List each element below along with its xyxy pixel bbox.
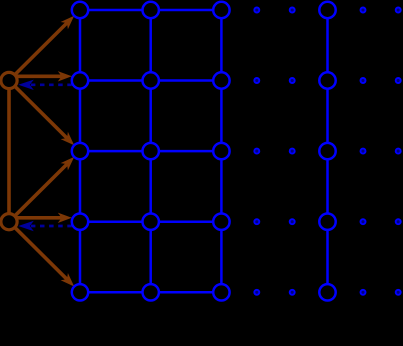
wire: row 5 horizontal edge bbox=[80, 291, 221, 294]
vertex circle (3,5) bbox=[213, 284, 229, 300]
vertex circle (1,2) bbox=[72, 72, 88, 88]
ellipsis dot col 2 row 5 bbox=[290, 290, 295, 295]
vertex circle (2,1) bbox=[143, 2, 159, 18]
vertex circle (3,3) bbox=[213, 143, 229, 159]
vertex circle (4,5) bbox=[319, 284, 335, 300]
wire: row 2 horizontal edge bbox=[80, 79, 221, 82]
vertex circle (3,1) bbox=[213, 2, 229, 18]
vertex circle (2,4) bbox=[143, 214, 159, 230]
wire: col 4 vertical edge bbox=[326, 10, 329, 292]
vertex circle (4,3) bbox=[319, 143, 335, 159]
wire: col 1 vertical edge bbox=[79, 10, 82, 292]
ellipsis dot col 2 row 3 bbox=[290, 149, 295, 154]
vertex circle (4,2) bbox=[319, 72, 335, 88]
dashed arrow vertex (1,4) to node B bbox=[18, 221, 72, 231]
ellipsis dot col 3 row 2 bbox=[361, 78, 366, 83]
wire: col 2 vertical edge bbox=[149, 10, 152, 292]
arrow node A to vertex (1,1) bbox=[9, 16, 74, 81]
ellipsis dot col 1 row 2 bbox=[254, 78, 259, 83]
vertex circle (2,3) bbox=[143, 143, 159, 159]
wire: brown edge node A to node B bbox=[7, 81, 11, 222]
ellipsis dot col 3 row 1 bbox=[361, 8, 366, 13]
dashed arrow vertex (1,2) to node A bbox=[18, 80, 72, 90]
vertex circle (4,1) bbox=[319, 2, 335, 18]
ellipsis dot col 1 row 5 bbox=[254, 290, 259, 295]
ellipsis dot col 4 row 4 bbox=[396, 219, 401, 224]
ellipsis dot col 4 row 1 bbox=[396, 8, 401, 13]
ellipsis dot col 2 row 2 bbox=[290, 78, 295, 83]
vertex circle (1,3) bbox=[72, 143, 88, 159]
ellipsis dot col 1 row 4 bbox=[254, 219, 259, 224]
wire: row 1 horizontal edge bbox=[80, 9, 221, 12]
wire: row 3 horizontal edge bbox=[80, 150, 221, 153]
node B (black vertex) bbox=[1, 214, 17, 230]
ellipsis dot col 3 row 4 bbox=[361, 219, 366, 224]
wire: col 3 vertical edge bbox=[220, 10, 223, 292]
vertex circle (1,4) bbox=[72, 214, 88, 230]
arrow node B to vertex (1,3) bbox=[9, 157, 74, 222]
vertex circle (3,4) bbox=[213, 214, 229, 230]
ellipsis dot col 3 row 5 bbox=[361, 290, 366, 295]
vertex circle (1,5) bbox=[72, 284, 88, 300]
ellipsis dot col 4 row 3 bbox=[396, 149, 401, 154]
vertex circle (3,2) bbox=[213, 72, 229, 88]
ellipsis dot col 4 row 5 bbox=[396, 290, 401, 295]
arrow node A to vertex (1,3) bbox=[9, 81, 74, 146]
wire: row 4 horizontal edge bbox=[80, 220, 221, 223]
vertex circle (4,4) bbox=[319, 214, 335, 230]
ellipsis dot col 2 row 1 bbox=[290, 8, 295, 13]
arrow node B to vertex (1,5) bbox=[9, 222, 74, 287]
vertex circle (1,1) bbox=[72, 2, 88, 18]
vertex circle (2,2) bbox=[143, 72, 159, 88]
arrow node A to vertex (1,2) bbox=[9, 71, 72, 81]
ellipsis dot col 2 row 4 bbox=[290, 219, 295, 224]
arrow node B to vertex (1,4) bbox=[9, 213, 72, 223]
ellipsis dot col 4 row 2 bbox=[396, 78, 401, 83]
vertex circle (2,5) bbox=[143, 284, 159, 300]
node A (black vertex) bbox=[1, 72, 17, 88]
ellipsis dot col 3 row 3 bbox=[361, 149, 366, 154]
ellipsis dot col 1 row 1 bbox=[254, 8, 259, 13]
ellipsis dot col 1 row 3 bbox=[254, 149, 259, 154]
